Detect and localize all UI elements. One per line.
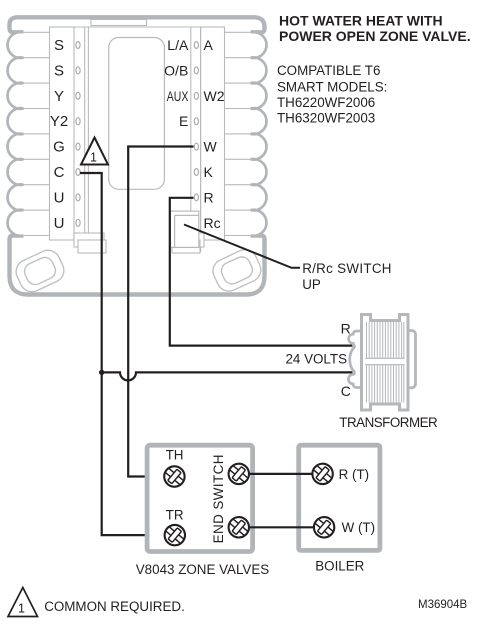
svg-text:END SWITCH: END SWITCH xyxy=(211,454,226,543)
svg-text:G: G xyxy=(53,139,65,156)
screw end switch bottom xyxy=(224,512,254,542)
transformer left bracket xyxy=(348,331,361,388)
transformer winding lines xyxy=(367,322,404,403)
right terminal labels A W2 W K R Rc xyxy=(204,37,225,231)
note triangle 1 on plate xyxy=(81,138,108,165)
wire C terminal to junction to TR xyxy=(80,173,165,535)
wire end switch to boiler W(T) xyxy=(249,526,314,528)
thermostat wallplate outer frame bottom band xyxy=(10,236,265,295)
svg-text:C: C xyxy=(341,383,351,399)
wire W terminal down to TH xyxy=(128,147,193,477)
thermostat wallplate outer frame top band xyxy=(10,17,265,294)
right scallop wire-clip column xyxy=(251,32,267,236)
svg-text:K: K xyxy=(204,164,214,180)
svg-text:COMPATIBLE T6: COMPATIBLE T6 xyxy=(277,63,380,78)
svg-text:U: U xyxy=(54,215,65,232)
wire R terminal down to transformer R xyxy=(170,198,353,346)
terminal slot separator lines right xyxy=(225,32,251,235)
middle terminal labels L/A O/B AUX E xyxy=(164,37,189,129)
bottom note triangle 1 xyxy=(8,588,38,617)
svg-text:TH: TH xyxy=(166,448,184,463)
svg-text:TH6220WF2006: TH6220WF2006 xyxy=(277,95,375,110)
transformer core body xyxy=(362,315,409,411)
svg-text:E: E xyxy=(179,113,188,129)
svg-text:O/B: O/B xyxy=(164,62,188,78)
transformer middle band xyxy=(365,358,405,364)
junction dot xyxy=(99,370,104,375)
svg-text:1: 1 xyxy=(18,602,25,616)
svg-text:L/A: L/A xyxy=(167,37,189,53)
svg-text:1: 1 xyxy=(90,151,97,165)
svg-text:TH6320WF2003: TH6320WF2003 xyxy=(277,111,375,126)
R/Rc switch label xyxy=(302,261,392,292)
svg-text:S: S xyxy=(54,62,64,79)
bottom small tabs left block xyxy=(74,233,106,253)
screw TR xyxy=(160,520,190,550)
boiler box xyxy=(299,445,380,550)
left mounting oval xyxy=(12,246,68,295)
svg-text:SMART MODELS:: SMART MODELS: xyxy=(277,79,387,94)
wire 24V C to transformer with hop xyxy=(102,372,353,380)
inner display cutout rounded rect xyxy=(109,38,165,190)
svg-text:24 VOLTS: 24 VOLTS xyxy=(285,352,347,367)
R/Rc switch rectangle xyxy=(170,211,199,247)
svg-text:Y2: Y2 xyxy=(50,113,68,130)
svg-text:TR: TR xyxy=(166,508,184,523)
terminal strip verticals xyxy=(50,27,225,252)
top mounting tab xyxy=(91,20,147,26)
svg-text:TRANSFORMER: TRANSFORMER xyxy=(339,415,438,430)
svg-text:M36904B: M36904B xyxy=(418,599,468,611)
svg-text:W: W xyxy=(204,139,218,155)
title text xyxy=(279,12,471,44)
screw TH xyxy=(159,462,189,492)
svg-text:AUX: AUX xyxy=(167,88,189,104)
svg-text:POWER OPEN ZONE VALVE.: POWER OPEN ZONE VALVE. xyxy=(279,28,471,44)
left terminal labels S S Y Y2 G C U U xyxy=(50,37,68,232)
svg-text:R: R xyxy=(204,189,214,205)
svg-text:W2: W2 xyxy=(204,88,225,104)
screw end switch top xyxy=(224,459,254,489)
svg-text:S: S xyxy=(54,37,64,54)
zone valve box xyxy=(147,445,253,551)
R/Rc switch pointer line xyxy=(184,225,300,268)
svg-text:R/Rc SWITCH: R/Rc SWITCH xyxy=(302,261,392,276)
svg-text:R: R xyxy=(341,321,351,337)
svg-text:A: A xyxy=(204,37,214,53)
svg-text:HOT WATER HEAT WITH: HOT WATER HEAT WITH xyxy=(279,12,443,28)
screw boiler W(T) xyxy=(309,512,339,542)
transformer right bracket xyxy=(405,331,416,388)
svg-text:V8043 ZONE VALVES: V8043 ZONE VALVES xyxy=(136,562,270,577)
bottom small tabs right block xyxy=(172,233,204,253)
left scallop wire-clip column xyxy=(8,32,24,236)
right mounting oval xyxy=(209,246,265,295)
wire end switch to boiler R(T) xyxy=(249,473,314,475)
compatible models text xyxy=(277,63,387,126)
svg-text:C: C xyxy=(54,164,65,181)
screw boiler R(T) xyxy=(308,459,338,489)
terminal slot separator lines left xyxy=(23,32,49,235)
svg-text:COMMON REQUIRED.: COMMON REQUIRED. xyxy=(44,599,185,614)
svg-text:U: U xyxy=(54,189,65,206)
svg-text:Y: Y xyxy=(54,88,64,105)
svg-text:W (T): W (T) xyxy=(342,520,375,535)
svg-text:Rc: Rc xyxy=(204,215,221,231)
svg-text:R (T): R (T) xyxy=(339,467,370,482)
svg-text:UP: UP xyxy=(302,277,321,292)
middle terminal screw ovals xyxy=(194,42,198,201)
transformer xyxy=(348,315,415,411)
svg-text:BOILER: BOILER xyxy=(315,559,364,574)
left terminal screw ovals xyxy=(76,42,80,227)
